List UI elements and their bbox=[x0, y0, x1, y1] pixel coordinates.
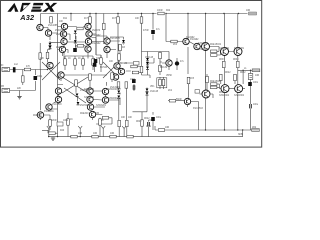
svg-text:VR5K: VR5K bbox=[166, 75, 172, 77]
svg-text:2SA970: 2SA970 bbox=[56, 46, 65, 49]
svg-text:2SC5200: 2SC5200 bbox=[80, 105, 90, 107]
svg-text:NJW3281: NJW3281 bbox=[96, 105, 107, 107]
svg-text:0R33: 0R33 bbox=[233, 59, 239, 61]
svg-text:NJW0302: NJW0302 bbox=[234, 95, 245, 97]
svg-text:470R: 470R bbox=[143, 30, 149, 32]
svg-text:NJW0302: NJW0302 bbox=[219, 95, 230, 97]
svg-text:KSA1381: KSA1381 bbox=[44, 110, 54, 113]
svg-text:BC546: BC546 bbox=[100, 67, 108, 69]
svg-text:4K7: 4K7 bbox=[112, 18, 117, 20]
svg-text:100n: 100n bbox=[253, 82, 259, 84]
svg-text:KSA992: KSA992 bbox=[92, 42, 101, 45]
svg-text:KSC3503: KSC3503 bbox=[193, 108, 204, 110]
svg-text:10K: 10K bbox=[128, 117, 133, 119]
svg-text:KSA992: KSA992 bbox=[92, 34, 101, 37]
svg-text:2SA1085: 2SA1085 bbox=[48, 24, 58, 27]
svg-text:KSA992: KSA992 bbox=[186, 36, 195, 39]
svg-text:100n: 100n bbox=[146, 126, 152, 128]
svg-text:2SA970: 2SA970 bbox=[55, 29, 64, 32]
svg-text:220R: 220R bbox=[51, 120, 57, 122]
svg-text:10K: 10K bbox=[121, 117, 126, 119]
svg-text:0R22: 0R22 bbox=[240, 72, 246, 74]
svg-text:1K: 1K bbox=[70, 119, 73, 121]
svg-text:4K7: 4K7 bbox=[84, 18, 89, 20]
svg-text:100u: 100u bbox=[156, 117, 162, 119]
svg-text:2R2: 2R2 bbox=[252, 127, 257, 129]
svg-text:10K: 10K bbox=[135, 18, 140, 20]
svg-text:KSC1845: KSC1845 bbox=[110, 38, 121, 40]
svg-text:NJW0281: NJW0281 bbox=[84, 89, 95, 91]
svg-text:2SA970: 2SA970 bbox=[56, 33, 65, 36]
svg-text:NJW0302: NJW0302 bbox=[108, 89, 119, 91]
svg-text:100p: 100p bbox=[130, 79, 136, 81]
svg-text:2SA970: 2SA970 bbox=[92, 29, 101, 32]
svg-text:MJE340: MJE340 bbox=[80, 113, 89, 115]
svg-text:VR1: VR1 bbox=[150, 86, 155, 88]
svg-text:10R: 10R bbox=[246, 10, 251, 12]
svg-text:NJW0302: NJW0302 bbox=[108, 98, 119, 100]
svg-text:FB: FB bbox=[1, 86, 4, 88]
svg-text:10K: 10K bbox=[59, 21, 64, 23]
svg-text:MJE15032: MJE15032 bbox=[210, 44, 222, 46]
svg-text:10R: 10R bbox=[165, 127, 170, 129]
svg-text:22K: 22K bbox=[17, 88, 22, 90]
svg-text:47K: 47K bbox=[26, 66, 31, 68]
svg-text:22R: 22R bbox=[95, 113, 100, 115]
svg-text:1K: 1K bbox=[68, 58, 71, 60]
svg-text:MJE15033: MJE15033 bbox=[210, 81, 222, 83]
svg-text:10R: 10R bbox=[110, 133, 115, 135]
svg-text:0R33: 0R33 bbox=[219, 59, 225, 61]
svg-text:2K2: 2K2 bbox=[173, 44, 178, 46]
svg-text:IN: IN bbox=[1, 65, 4, 67]
svg-text:560R: 560R bbox=[176, 99, 182, 101]
svg-text:KSA1220: KSA1220 bbox=[199, 48, 209, 51]
svg-text:22K: 22K bbox=[40, 58, 45, 60]
svg-text:100p: 100p bbox=[37, 76, 43, 78]
svg-text:MJE350: MJE350 bbox=[33, 115, 42, 117]
svg-text:100n: 100n bbox=[63, 120, 69, 122]
svg-text:2K2: 2K2 bbox=[168, 90, 173, 92]
svg-text:BD139: BD139 bbox=[120, 63, 128, 65]
svg-text:R40: R40 bbox=[60, 130, 65, 132]
svg-text:0R22: 0R22 bbox=[144, 118, 150, 120]
svg-text:1K5: 1K5 bbox=[190, 78, 195, 80]
svg-text:10R: 10R bbox=[255, 75, 260, 77]
svg-text:10R: 10R bbox=[93, 133, 98, 135]
svg-text:100u: 100u bbox=[253, 104, 259, 106]
svg-text:100R: 100R bbox=[157, 10, 163, 12]
svg-text:10R: 10R bbox=[78, 133, 83, 135]
svg-text:NJW0281: NJW0281 bbox=[219, 48, 230, 50]
svg-text:2SC3503: 2SC3503 bbox=[52, 104, 62, 106]
svg-text:NFB: NFB bbox=[238, 134, 243, 136]
svg-text:R22: R22 bbox=[166, 10, 171, 12]
svg-text:0R22: 0R22 bbox=[225, 72, 231, 74]
svg-text:NJW0281: NJW0281 bbox=[198, 43, 209, 45]
svg-text:1N4148: 1N4148 bbox=[150, 91, 159, 93]
svg-text:1K: 1K bbox=[78, 58, 81, 60]
svg-text:0R22: 0R22 bbox=[136, 121, 142, 123]
svg-text:NJW0281: NJW0281 bbox=[234, 48, 245, 50]
svg-text:BD139: BD139 bbox=[160, 67, 168, 69]
svg-text:A32: A32 bbox=[19, 13, 34, 22]
svg-text:0R33: 0R33 bbox=[219, 92, 225, 94]
svg-text:NJW0281: NJW0281 bbox=[84, 97, 95, 99]
svg-text:1K: 1K bbox=[101, 120, 104, 122]
svg-text:1N4148: 1N4148 bbox=[145, 57, 154, 59]
